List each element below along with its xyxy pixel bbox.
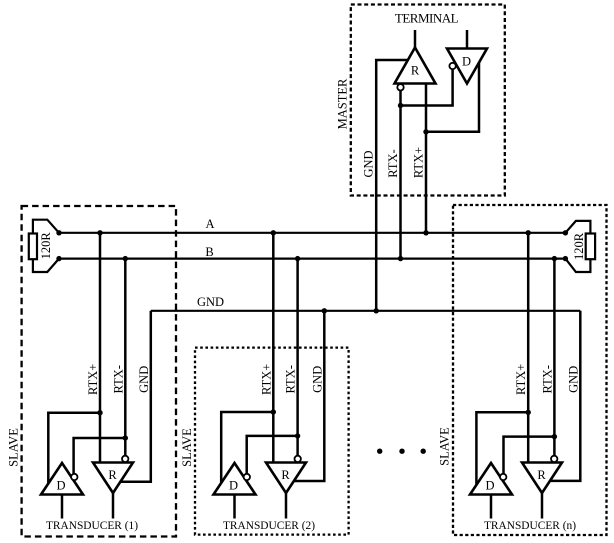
dashed enclosure: SLAVE box 1 (22, 206, 176, 537)
junction: slave2 RTX+ branch (271, 409, 276, 414)
junction: slave-n RTX- branch (552, 434, 557, 439)
junction: left terminator on A (56, 230, 61, 235)
wire: slave-n RTX+ drop (527, 233, 530, 463)
svg-text:R: R (281, 468, 290, 482)
ellipsis dot 1 (377, 449, 382, 454)
op-amp R receiver (slave 2) (266, 463, 306, 494)
svg-text:R: R (411, 64, 420, 78)
svg-text:SLAVE: SLAVE (438, 427, 452, 466)
bubble: slave1 D inverted output (71, 474, 77, 480)
wire: slave-n D output stub (490, 495, 493, 519)
wire: slave-n GND drop (550, 311, 580, 481)
svg-text:RTX+: RTX+ (514, 364, 528, 395)
junction: right terminator on B (563, 256, 568, 261)
junction: master RTX- on bus B (398, 256, 403, 261)
wire: master RTX- drop (399, 91, 402, 259)
dashed enclosure: MASTER box (351, 5, 505, 196)
junction: master RTX+ branch (423, 129, 428, 134)
wire: slave-n RTX- drop (553, 259, 556, 456)
svg-text:120R: 120R (572, 232, 586, 260)
wire: slave1 RTX- branch to D bubble (74, 438, 126, 474)
wire: slave-n RTX+ branch to D input (476, 412, 528, 485)
svg-text:RTX-: RTX- (386, 149, 400, 177)
svg-text:SLAVE: SLAVE (7, 428, 21, 467)
dashed enclosure: SLAVE box n (453, 205, 607, 535)
wire: slave-n RTX- branch to D bubble (504, 437, 555, 474)
wire: slave1 GND drop (120, 311, 150, 482)
bubble: slave1 R inverting input (122, 456, 128, 462)
wire: slave2 RTX- branch to D bubble (247, 436, 298, 474)
svg-text:D: D (229, 479, 238, 493)
wire: bus line A (59, 232, 565, 234)
wire: slave2 GND drop (294, 311, 324, 481)
svg-text:TRANSDUCER (n): TRANSDUCER (n) (484, 520, 576, 532)
op-amp R receiver (slave 1) (93, 463, 133, 494)
junction: slave1 RTX- branch (123, 435, 128, 440)
svg-text:RTX+: RTX+ (259, 364, 273, 395)
wire: driver D input stub (master, from terminal) (466, 30, 469, 49)
junction: slave2 RTX+ on bus A (271, 230, 276, 235)
svg-text:TERMINAL: TERMINAL (395, 11, 459, 26)
junction: master RTX+ on bus A (423, 230, 428, 235)
junction: slave2 RTX- on bus B (295, 256, 300, 261)
junction: slave1 RTX+ branch (97, 410, 102, 415)
op-amp R receiver (master) (395, 48, 436, 84)
wire: bus line GND (151, 310, 581, 312)
svg-text:RTX+: RTX+ (86, 364, 100, 395)
svg-text:A: A (205, 217, 214, 231)
svg-text:B: B (205, 245, 213, 259)
wire: master RTX+ drop (425, 84, 428, 233)
transistor-like driver D (slave 1) (41, 463, 83, 495)
svg-text:SLAVE: SLAVE (180, 428, 194, 467)
junction: slave1 RTX- on bus B (123, 256, 128, 261)
junction: slave-n RTX+ on bus A (526, 230, 531, 235)
bubble: slave-n D inverted output (500, 474, 506, 480)
transistor-like driver D (slave 2) (214, 463, 256, 495)
wire: slave1 RTX- drop (124, 259, 127, 456)
wire: slave-n R output stub (541, 493, 544, 519)
junction: slave1 RTX+ on bus A (97, 230, 102, 235)
svg-text:120R: 120R (39, 232, 53, 260)
svg-text:GND: GND (137, 366, 151, 393)
svg-text:GND: GND (362, 150, 376, 177)
svg-text:RTX+: RTX+ (412, 147, 426, 178)
junction: slave-n RTX+ branch (526, 410, 531, 415)
svg-text:TRANSDUCER (1): TRANSDUCER (1) (46, 520, 138, 532)
wire: bus line B (59, 258, 565, 260)
bubble: master R enable (397, 84, 403, 90)
bubble: master D enable (449, 63, 455, 69)
svg-text:R: R (108, 468, 117, 482)
junction: left terminator on B (56, 256, 61, 261)
wire: slave1 RTX+ branch to D input (48, 413, 100, 484)
svg-text:MASTER: MASTER (336, 78, 350, 129)
wire: slave2 RTX+ drop (272, 233, 275, 463)
wire: receiver R input stub (master, to terminal) (414, 30, 417, 48)
transistor-like driver D (slave n) (470, 463, 512, 495)
wire: master enable branch to D bubble (401, 69, 453, 105)
svg-text:D: D (462, 55, 471, 69)
svg-text:RTX-: RTX- (540, 365, 554, 393)
bubble: slave-n R inverting input (551, 456, 557, 462)
junction: slave2 RTX- branch (295, 433, 300, 438)
wire: slave1 RTX+ drop (99, 233, 102, 463)
resistor 120R (right terminator) leads (565, 221, 590, 234)
wire: slave1 R output stub (112, 493, 115, 519)
wire: slave2 R output stub (285, 493, 288, 519)
wire: slave2 RTX- drop (296, 259, 299, 456)
svg-text:TRANSDUCER (2): TRANSDUCER (2) (223, 520, 315, 532)
svg-text:GND: GND (197, 295, 224, 309)
junction: slave-n RTX- on bus B (552, 256, 557, 261)
resistor 120R (right terminator) body (586, 234, 595, 260)
svg-text:GND: GND (310, 366, 324, 393)
junction: master GND on bus GND (374, 308, 379, 313)
ellipsis dot 2 (399, 449, 404, 454)
svg-text:RTX-: RTX- (111, 365, 125, 393)
svg-text:GND: GND (566, 366, 580, 393)
resistor 120R (left terminator) body (29, 234, 37, 260)
bubble: slave2 D inverted output (244, 474, 250, 480)
op-amp R receiver (slave n) (522, 463, 562, 494)
op-amp D driver (master) (447, 49, 487, 84)
resistor 120R (left terminator) leads (33, 220, 59, 234)
junction: master RTX- branch (398, 103, 403, 108)
wire: master RTX+ branch to D output (426, 63, 479, 132)
junction: slave2 GND on bus GND (322, 308, 327, 313)
bubble: slave2 R inverting input (295, 456, 301, 462)
wire: slave2 D output stub (233, 495, 236, 519)
ellipsis dot 3 (421, 449, 426, 454)
svg-text:D: D (56, 479, 65, 493)
wire: slave1 D output stub (61, 495, 64, 519)
svg-text:R: R (537, 468, 546, 482)
svg-text:D: D (485, 479, 494, 493)
wire: master GND drop (376, 60, 407, 311)
svg-text:RTX-: RTX- (284, 365, 298, 393)
dashed enclosure: SLAVE box 2 (195, 348, 349, 535)
wire: slave2 RTX+ branch to D input (221, 412, 273, 483)
junction: right terminator on A (563, 230, 568, 235)
